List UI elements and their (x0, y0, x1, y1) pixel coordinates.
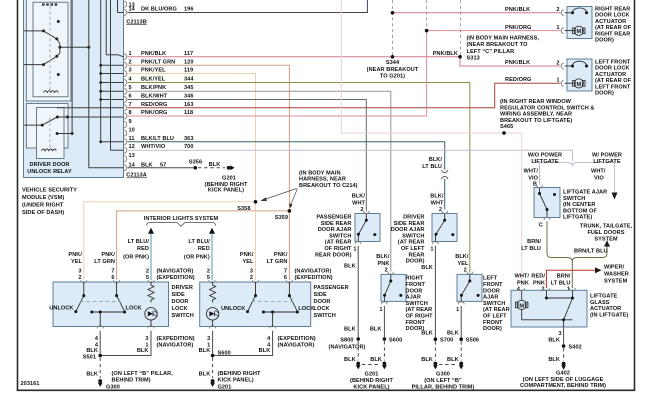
svg-text:SIDE REAR: SIDE REAR (394, 221, 425, 227)
svg-text:700: 700 (184, 144, 193, 150)
svg-text:BLK: BLK (421, 331, 433, 337)
svg-text:2: 2 (556, 60, 559, 66)
svg-text:163: 163 (184, 102, 193, 108)
svg-text:PILLAR, BEHIND TRIM): PILLAR, BEHIND TRIM) (412, 385, 475, 391)
svg-text:LIFTGATE: LIFTGATE (531, 159, 559, 165)
svg-text:LT BLU/: LT BLU/ (128, 239, 150, 245)
svg-text:BLK: BLK (199, 372, 211, 378)
svg-text:LOCK: LOCK (126, 305, 142, 311)
svg-text:PNK/: PNK/ (68, 252, 82, 258)
svg-text:G300: G300 (436, 371, 450, 377)
svg-text:BREAKOUT TO LIFTGATE): BREAKOUT TO LIFTGATE) (500, 118, 572, 124)
svg-text:(BEHIND RIGHT: (BEHIND RIGHT (350, 378, 393, 384)
svg-text:MODULE (VSM): MODULE (VSM) (22, 195, 64, 201)
svg-text:(IN BODY MAIN HARNESS,: (IN BODY MAIN HARNESS, (467, 36, 540, 42)
svg-text:S700: S700 (440, 338, 453, 344)
svg-text:SYSTEM: SYSTEM (594, 237, 618, 243)
svg-text:(NEAR BREAKOUT: (NEAR BREAKOUT (367, 67, 419, 73)
svg-text:(IN LIFTGATE): (IN LIFTGATE) (590, 312, 629, 318)
svg-text:DOOR): DOOR) (595, 38, 614, 44)
svg-text:FUEL DOORS: FUEL DOORS (587, 230, 624, 236)
svg-text:(AT REAR: (AT REAR (483, 307, 510, 313)
svg-text:G300: G300 (106, 384, 120, 390)
svg-text:WHT/: WHT/ (591, 168, 606, 174)
svg-text:PNK/BLK: PNK/BLK (505, 7, 530, 13)
svg-text:(NEAR BREAKOUT TO: (NEAR BREAKOUT TO (467, 42, 529, 48)
svg-text:LT BLU: LT BLU (422, 164, 442, 170)
svg-text:3: 3 (207, 336, 210, 342)
svg-text:DOOR: DOOR (314, 299, 331, 305)
svg-text:ACTUATOR: ACTUATOR (595, 19, 626, 25)
svg-text:PNK/: PNK/ (101, 252, 115, 258)
svg-text:RED: RED (198, 246, 210, 252)
svg-text:LT BLU: LT BLU (551, 280, 571, 286)
svg-text:BLK: BLK (209, 162, 221, 168)
svg-text:14: 14 (129, 7, 136, 13)
svg-text:(IN CENTER: (IN CENTER (563, 202, 596, 208)
svg-text:(ON LEFT “B”: (ON LEFT “B” (424, 378, 462, 384)
svg-text:7: 7 (111, 268, 114, 274)
svg-text:S501: S501 (83, 355, 96, 361)
svg-text:(BEHIND RIGHT: (BEHIND RIGHT (218, 371, 261, 377)
svg-text:LIFTGATE: LIFTGATE (593, 159, 621, 165)
svg-text:3: 3 (145, 336, 148, 342)
svg-text:M: M (576, 82, 581, 88)
svg-text:BLK/: BLK/ (429, 157, 443, 163)
svg-text:BLK: BLK (447, 331, 459, 337)
svg-text:SWITCH: SWITCH (329, 233, 351, 239)
svg-text:RED/ORG: RED/ORG (505, 77, 531, 83)
svg-text:OF RIGHT: OF RIGHT (324, 246, 352, 252)
svg-text:LEFT FRONT: LEFT FRONT (595, 84, 631, 90)
svg-text:1: 1 (353, 247, 356, 253)
svg-text:S600: S600 (218, 351, 231, 357)
svg-text:BLK/: BLK/ (352, 193, 366, 199)
svg-text:DRIVER: DRIVER (172, 285, 193, 291)
svg-text:2: 2 (129, 59, 132, 65)
svg-text:3: 3 (250, 268, 253, 274)
svg-text:WHT/: WHT/ (515, 273, 530, 279)
svg-text:UNLOCK: UNLOCK (221, 306, 245, 312)
svg-text:WHT/: WHT/ (524, 168, 539, 174)
svg-text:BLK: BLK (259, 348, 271, 354)
svg-text:BRN/: BRN/ (557, 273, 571, 279)
svg-text:TO G201): TO G201) (380, 74, 405, 80)
svg-text:118: 118 (184, 110, 193, 116)
svg-text:PNK: PNK (378, 261, 390, 267)
svg-text:AJAR: AJAR (406, 295, 421, 301)
svg-text:BLK: BLK (199, 348, 211, 354)
svg-text:YEL: YEL (71, 259, 83, 265)
svg-text:SIDE REAR: SIDE REAR (321, 221, 352, 227)
svg-text:LOCK: LOCK (172, 306, 188, 312)
svg-text:1: 1 (556, 25, 559, 31)
svg-text:9: 9 (129, 119, 132, 125)
svg-text:(UNDER RIGHT: (UNDER RIGHT (22, 202, 64, 208)
svg-text:VEHICLE SECURITY: VEHICLE SECURITY (22, 187, 77, 193)
svg-text:12: 12 (129, 144, 135, 150)
svg-text:(NAVIGATOR): (NAVIGATOR) (278, 342, 315, 348)
svg-text:PNK/LT GRN: PNK/LT GRN (141, 59, 175, 65)
svg-text:SYSTEM: SYSTEM (604, 278, 628, 284)
svg-text:346: 346 (184, 94, 193, 100)
svg-text:1: 1 (129, 51, 132, 57)
svg-text:M: M (519, 303, 524, 309)
svg-text:DOOR LOCK: DOOR LOCK (595, 13, 630, 19)
svg-text:DOOR): DOOR) (406, 259, 425, 265)
svg-text:1: 1 (379, 307, 382, 313)
svg-text:BLK: BLK (548, 357, 560, 363)
svg-text:DOOR: DOOR (172, 299, 189, 305)
svg-text:OF LEFT: OF LEFT (483, 314, 507, 320)
svg-text:DOOR AJAR: DOOR AJAR (318, 227, 352, 233)
svg-text:WHT/VIO: WHT/VIO (141, 144, 166, 150)
svg-text:W/ POWER: W/ POWER (592, 153, 622, 159)
svg-text:1: 1 (430, 247, 433, 253)
svg-text:VIO: VIO (528, 175, 538, 181)
svg-text:5: 5 (146, 275, 149, 281)
svg-text:DRIVER DOOR: DRIVER DOOR (29, 162, 69, 168)
svg-text:DOOR LOCK: DOOR LOCK (595, 66, 630, 72)
svg-text:BLK: BLK (548, 338, 560, 344)
svg-text:BLK: BLK (447, 357, 459, 363)
svg-text:2: 2 (78, 275, 81, 281)
svg-text:BLK/: BLK/ (455, 254, 469, 260)
svg-text:2: 2 (207, 268, 210, 274)
svg-text:(AT REAR OF: (AT REAR OF (595, 25, 632, 31)
svg-text:11: 11 (129, 136, 135, 142)
svg-text:(ON LEFT SIDE OF LUGGAGE: (ON LEFT SIDE OF LUGGAGE (523, 377, 604, 383)
svg-text:13: 13 (129, 153, 135, 159)
svg-text:ACTUATOR: ACTUATOR (595, 72, 626, 78)
svg-text:344: 344 (184, 77, 194, 83)
svg-text:PNK: PNK (533, 280, 545, 286)
svg-text:S600: S600 (389, 338, 402, 344)
svg-text:BOTTOM OF: BOTTOM OF (563, 208, 597, 214)
svg-text:FRONT: FRONT (406, 282, 426, 288)
svg-text:SWITCH: SWITCH (314, 313, 336, 319)
svg-text:LT BLU: LT BLU (521, 246, 541, 252)
svg-text:LT BLU/: LT BLU/ (188, 239, 210, 245)
svg-text:REAR DOOR): REAR DOOR) (315, 252, 352, 258)
svg-text:BLK: BLK (137, 348, 149, 354)
svg-text:BLK/PNK: BLK/PNK (141, 85, 166, 91)
svg-text:WIPER/: WIPER/ (604, 264, 625, 270)
svg-text:W/O POWER: W/O POWER (528, 153, 562, 159)
svg-text:(OR PNK): (OR PNK) (184, 254, 210, 260)
svg-text:(ON LEFT “B” PILLAR,: (ON LEFT “B” PILLAR, (112, 371, 174, 377)
svg-text:(IN BODY MAIN: (IN BODY MAIN (299, 170, 341, 176)
svg-text:S358: S358 (237, 206, 250, 212)
svg-text:3: 3 (558, 331, 561, 337)
svg-text:BLK/: BLK/ (376, 254, 390, 260)
svg-text:S402: S402 (569, 345, 582, 351)
svg-text:S356: S356 (189, 160, 202, 166)
svg-text:G402: G402 (556, 371, 570, 377)
svg-text:S465: S465 (500, 124, 513, 130)
svg-text:(AT REAR: (AT REAR (325, 240, 352, 246)
svg-text:2: 2 (556, 7, 559, 13)
svg-text:BEHIND TRIM): BEHIND TRIM) (112, 377, 151, 383)
svg-text:S506: S506 (466, 338, 479, 344)
svg-text:1: 1 (456, 307, 459, 313)
svg-text:PNK/BLK: PNK/BLK (505, 60, 530, 66)
svg-text:RED: RED (137, 246, 149, 252)
svg-text:BLK: BLK (86, 348, 98, 354)
svg-text:OF LEFT: OF LEFT (401, 246, 425, 252)
svg-text:LOCK: LOCK (298, 306, 314, 312)
svg-text:WHT: WHT (431, 200, 444, 206)
svg-text:PNK/: PNK/ (240, 252, 254, 258)
svg-text:BLK: BLK (344, 357, 356, 363)
svg-text:PASSENGER: PASSENGER (314, 285, 349, 291)
svg-text:BLK/LT BLU: BLK/LT BLU (141, 136, 174, 142)
svg-text:(IN RIGHT REAR WINDOW: (IN RIGHT REAR WINDOW (500, 99, 572, 105)
svg-text:BLK: BLK (344, 264, 356, 270)
svg-text:345: 345 (184, 85, 193, 91)
svg-text:PNK: PNK (517, 280, 529, 286)
svg-text:196: 196 (184, 7, 193, 13)
svg-text:BLK: BLK (370, 357, 382, 363)
svg-text:REGULATOR CONTROL SWITCH &: REGULATOR CONTROL SWITCH & (500, 105, 595, 111)
svg-text:6: 6 (111, 275, 114, 281)
svg-text:363: 363 (184, 136, 193, 142)
svg-text:S313: S313 (467, 56, 480, 62)
svg-text:WIRING ASSEMBLY, NEAR: WIRING ASSEMBLY, NEAR (500, 112, 572, 118)
svg-text:2: 2 (250, 275, 253, 281)
svg-text:C2113A: C2113A (126, 173, 147, 179)
svg-text:REAR: REAR (408, 252, 424, 258)
svg-text:PNK/YEL: PNK/YEL (141, 68, 166, 74)
svg-text:S359: S359 (275, 215, 288, 221)
svg-text:DOOR: DOOR (483, 288, 500, 294)
svg-text:G201: G201 (222, 175, 236, 181)
svg-text:UNLOCK RELAY: UNLOCK RELAY (27, 169, 72, 175)
svg-text:(EXPEDITION): (EXPEDITION) (157, 336, 195, 342)
svg-text:FRONT: FRONT (483, 282, 503, 288)
svg-text:PNK/BLK: PNK/BLK (141, 51, 166, 57)
svg-text:PASSENGER: PASSENGER (316, 215, 351, 221)
svg-text:RED/ORG: RED/ORG (141, 102, 167, 108)
svg-text:OF RIGHT: OF RIGHT (406, 314, 434, 320)
svg-text:SIDE: SIDE (314, 292, 327, 298)
svg-text:YEL: YEL (457, 261, 469, 267)
svg-text:6: 6 (284, 275, 287, 281)
svg-text:DOOR: DOOR (406, 288, 423, 294)
svg-text:SIDE OF DASH): SIDE OF DASH) (22, 210, 64, 216)
svg-text:UNLOCK: UNLOCK (49, 305, 73, 311)
svg-text:(AT REAR: (AT REAR (398, 240, 425, 246)
svg-text:LIFTGATE: LIFTGATE (590, 294, 618, 300)
svg-text:BRN/LT BLU: BRN/LT BLU (574, 249, 608, 255)
svg-text:LEFT: LEFT (483, 276, 498, 282)
svg-text:(EXPEDITION): (EXPEDITION) (295, 275, 333, 281)
svg-text:SWITCH: SWITCH (172, 313, 194, 319)
svg-text:6: 6 (129, 94, 132, 100)
svg-text:S800: S800 (340, 338, 353, 344)
svg-text:FRONT: FRONT (483, 320, 503, 326)
svg-text:DOOR AJAR: DOOR AJAR (391, 227, 425, 233)
svg-text:KICK PANEL): KICK PANEL) (218, 377, 254, 383)
svg-text:DOOR): DOOR) (483, 326, 502, 332)
svg-text:SIDE: SIDE (172, 292, 185, 298)
svg-text:RIGHT: RIGHT (406, 276, 424, 282)
svg-text:5: 5 (207, 275, 210, 281)
svg-text:M: M (576, 29, 581, 35)
svg-text:LT GRN: LT GRN (267, 259, 288, 265)
svg-text:(NAVIGATOR): (NAVIGATOR) (329, 344, 366, 350)
svg-text:RED/: RED/ (531, 273, 545, 279)
svg-text:C2113B: C2113B (126, 19, 147, 25)
svg-text:G201: G201 (365, 371, 379, 377)
svg-text:(NAVIGATOR): (NAVIGATOR) (157, 342, 194, 348)
svg-text:LT GRN: LT GRN (94, 259, 115, 265)
svg-text:BLK: BLK (344, 326, 356, 332)
svg-text:7: 7 (284, 268, 287, 274)
svg-text:DRIVER: DRIVER (403, 215, 424, 221)
svg-text:AJAR: AJAR (483, 295, 498, 301)
svg-text:BLK: BLK (421, 265, 433, 271)
svg-text:RIGHT REAR: RIGHT REAR (595, 31, 630, 37)
svg-text:LIFTGATE): LIFTGATE) (563, 215, 592, 221)
svg-text:2: 2 (385, 267, 388, 273)
svg-text:3: 3 (78, 268, 81, 274)
svg-text:INTERIOR LIGHTS SYSTEM: INTERIOR LIGHTS SYSTEM (144, 216, 219, 222)
svg-text:FRONT: FRONT (406, 320, 426, 326)
svg-text:SWITCH: SWITCH (563, 196, 585, 202)
svg-text:BLK: BLK (86, 372, 98, 378)
svg-text:(EXPEDITION): (EXPEDITION) (278, 336, 316, 342)
svg-text:2: 2 (146, 268, 149, 274)
svg-text:BLK: BLK (421, 357, 433, 363)
svg-text:(AT REAR OF: (AT REAR OF (595, 78, 632, 84)
svg-text:KICK PANEL): KICK PANEL) (208, 188, 244, 194)
svg-text:(AT REAR: (AT REAR (406, 307, 433, 313)
svg-text:WASHER: WASHER (604, 271, 629, 277)
svg-text:PNK/: PNK/ (274, 252, 288, 258)
svg-text:G201: G201 (218, 384, 232, 390)
svg-text:WHT: WHT (352, 200, 365, 206)
svg-text:DK BLU/ORG: DK BLU/ORG (141, 7, 177, 13)
svg-text:203161: 203161 (21, 381, 40, 387)
svg-text:COMPARTMENT, BEHIND TRIM): COMPARTMENT, BEHIND TRIM) (520, 383, 606, 389)
svg-text:8: 8 (129, 110, 132, 116)
svg-text:BLK/WHT: BLK/WHT (141, 94, 168, 100)
svg-text:10: 10 (129, 128, 135, 134)
svg-text:DOOR): DOOR) (595, 91, 614, 97)
svg-text:LIFTGATE AJAR: LIFTGATE AJAR (563, 190, 607, 196)
svg-text:TRUNK, TAILGATE,: TRUNK, TAILGATE, (580, 224, 633, 230)
svg-text:LOCK: LOCK (314, 306, 330, 312)
svg-text:PNK/BLK: PNK/BLK (433, 51, 458, 57)
svg-text:HARNESS, NEAR: HARNESS, NEAR (299, 177, 346, 183)
svg-text:PNK/ORG: PNK/ORG (505, 25, 531, 31)
svg-text:SWITCH: SWITCH (402, 233, 424, 239)
svg-text:1: 1 (556, 77, 559, 83)
svg-text:119: 119 (184, 68, 193, 74)
svg-text:117: 117 (184, 51, 193, 57)
svg-text:SWITCH: SWITCH (406, 301, 428, 307)
svg-text:(NAVIGATOR): (NAVIGATOR) (295, 268, 332, 274)
svg-text:ACTUATOR: ACTUATOR (590, 306, 621, 312)
svg-text:BLK: BLK (370, 326, 382, 332)
svg-text:5: 5 (129, 85, 132, 91)
svg-text:7: 7 (129, 102, 132, 108)
svg-text:2: 2 (464, 267, 467, 273)
svg-text:B: B (533, 182, 537, 188)
svg-text:LEFT FRONT: LEFT FRONT (595, 60, 631, 66)
svg-text:(NAVIGATOR): (NAVIGATOR) (157, 268, 194, 274)
svg-text:C: C (539, 223, 543, 229)
svg-text:BLK/: BLK/ (430, 193, 444, 199)
svg-text:VIO: VIO (594, 175, 604, 181)
svg-text:S344: S344 (386, 60, 400, 66)
svg-text:PNK/ORG: PNK/ORG (141, 110, 167, 116)
svg-text:BREAKOUT TO C214): BREAKOUT TO C214) (299, 183, 358, 189)
svg-text:YEL: YEL (242, 259, 254, 265)
svg-text:BLK/YEL: BLK/YEL (141, 77, 166, 83)
svg-text:120: 120 (184, 59, 193, 65)
svg-text:3: 3 (129, 68, 132, 74)
svg-text:LEFT “C” PILLAR: LEFT “C” PILLAR (467, 49, 515, 55)
svg-text:(EXPEDITION): (EXPEDITION) (157, 275, 195, 281)
svg-text:GLASS: GLASS (590, 300, 610, 306)
svg-text:BRN/: BRN/ (527, 239, 541, 245)
svg-text:KICK PANEL): KICK PANEL) (353, 385, 389, 391)
svg-text:RIGHT REAR: RIGHT REAR (595, 7, 630, 13)
svg-text:(OR PNK): (OR PNK) (123, 254, 149, 260)
svg-text:SWITCH: SWITCH (483, 301, 505, 307)
